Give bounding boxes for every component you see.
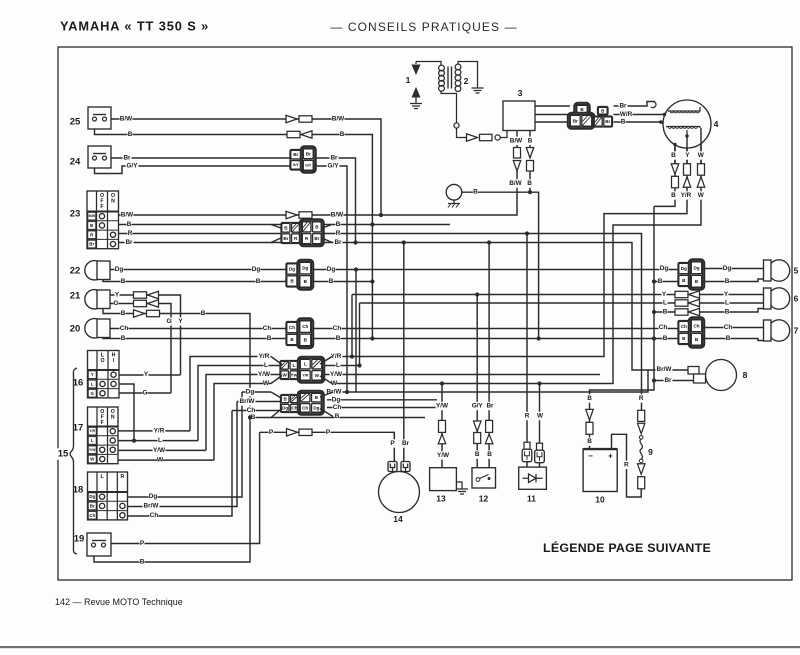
connector B comp3	[526, 148, 534, 172]
svg-text:L: L	[264, 362, 268, 369]
svg-text:13: 13	[436, 494, 446, 504]
svg-text:W: W	[698, 152, 705, 159]
svg-text:B: B	[663, 335, 668, 342]
svg-text:7: 7	[794, 326, 799, 336]
svg-text:L: L	[336, 362, 340, 369]
connector B battery	[586, 409, 594, 434]
svg-text:Dg: Dg	[681, 266, 687, 271]
svg-text:Br/W: Br/W	[144, 503, 160, 510]
wire G/Y drop to comp12	[476, 295, 478, 468]
svg-text:B/W: B/W	[120, 116, 133, 123]
junction L comp16	[132, 439, 136, 443]
svg-text:G/Y: G/Y	[327, 163, 339, 170]
connector block cluster lower	[281, 391, 324, 415]
wire B to magneto	[614, 122, 667, 127]
flasher relay 14	[379, 462, 420, 513]
svg-text:B: B	[121, 335, 126, 342]
wire fan Br23 right	[322, 238, 332, 243]
wire fan W left	[271, 376, 282, 384]
svg-text:Y: Y	[724, 291, 729, 298]
primary lead with connector	[454, 123, 507, 141]
label 11	[527, 494, 536, 504]
svg-text:4: 4	[714, 119, 719, 129]
label B 25b	[340, 130, 345, 138]
wire Br/W row cluster left	[237, 401, 281, 403]
label 2	[464, 76, 469, 86]
label Dg 18	[149, 493, 158, 501]
label B mag2	[671, 191, 676, 199]
rectifier 11	[519, 467, 547, 489]
svg-text:W: W	[537, 413, 544, 420]
wire Y mid to lamp6	[352, 294, 675, 296]
wire fan B23 left	[271, 225, 281, 229]
svg-text:9: 9	[648, 447, 653, 457]
label B battery a	[587, 394, 592, 402]
wire G lamp21	[110, 304, 171, 394]
svg-text:8: 8	[743, 370, 748, 380]
label B/W 23a	[121, 211, 135, 219]
svg-text:Y/R: Y/R	[331, 353, 342, 360]
wire Y/W comp17	[118, 449, 206, 451]
wire Ch row cluster left	[232, 410, 281, 412]
svg-text:Dg: Dg	[327, 266, 336, 273]
wire G comp16	[119, 392, 171, 394]
junction B lamp20 b	[537, 336, 541, 340]
switch 24	[88, 146, 111, 168]
svg-text:20: 20	[70, 324, 81, 335]
connector block Ch/B lamp7	[678, 317, 704, 347]
wire B row25	[95, 129, 373, 339]
wire R row23	[119, 234, 642, 411]
tail light 5	[764, 260, 790, 281]
wire Y/W row	[206, 375, 600, 451]
label Br comp14	[401, 439, 410, 447]
label 1	[406, 75, 411, 85]
label R comp9	[639, 394, 644, 402]
label W mag1	[698, 151, 705, 159]
label B 22b	[256, 277, 261, 285]
label B comp3	[528, 137, 533, 145]
label P 19	[140, 539, 145, 547]
wire P row	[260, 432, 395, 461]
connector block Ch/B row20	[286, 318, 313, 348]
label B/W 25b	[332, 115, 346, 123]
connector pair B/W row25	[286, 115, 312, 122]
svg-text:Y/W: Y/W	[89, 448, 96, 452]
wire B row cluster left	[250, 417, 425, 419]
header CONSEILS PRATIQUES	[330, 20, 517, 34]
svg-text:Y: Y	[144, 371, 149, 378]
svg-text:Y/R: Y/R	[681, 192, 692, 199]
wire fan B right low	[320, 409, 333, 417]
wire B lamp22	[103, 279, 372, 282]
wire Br drop to comp14	[403, 243, 405, 462]
lighting switch 17	[88, 407, 119, 464]
wire CDI out2	[535, 114, 595, 116]
svg-text:10: 10	[595, 495, 605, 505]
svg-text:Br: Br	[125, 239, 133, 246]
svg-text:B/W: B/W	[88, 214, 95, 218]
wire B/W row25	[110, 119, 381, 215]
wire R drop to comp11	[526, 234, 528, 468]
svg-text:B/W: B/W	[121, 212, 134, 219]
label G 16	[143, 389, 148, 397]
wire L row	[198, 366, 358, 441]
wire lamp6 L	[700, 302, 764, 304]
wire W row right	[332, 128, 701, 384]
svg-text:24: 24	[70, 157, 81, 168]
svg-text:P: P	[326, 429, 331, 436]
label B/W 25a	[120, 115, 134, 123]
wire L comp17	[118, 440, 198, 442]
label 16	[72, 377, 85, 389]
svg-text:Dg: Dg	[252, 266, 261, 273]
svg-text:B: B	[256, 278, 261, 285]
svg-text:Br: Br	[89, 242, 94, 247]
label Y lamp6 b	[724, 290, 729, 298]
label Br comp12	[486, 402, 495, 410]
label B lamp6 a	[663, 308, 668, 316]
svg-text:R: R	[624, 461, 629, 468]
magneto 4	[659, 100, 711, 148]
wire Y/R comp17	[118, 430, 190, 432]
svg-text:Dg: Dg	[246, 389, 255, 396]
svg-text:2: 2	[464, 76, 469, 86]
connector W comp11	[535, 443, 545, 463]
svg-text:Dg: Dg	[313, 405, 319, 410]
indicator lamp 20	[85, 319, 110, 338]
connector Br comp12	[485, 420, 493, 443]
label 7	[794, 326, 799, 336]
label 13	[436, 494, 446, 504]
svg-text:Y/W: Y/W	[330, 371, 343, 378]
svg-text:P: P	[390, 440, 395, 447]
label B lamp6 b	[725, 308, 730, 316]
wire CDI out3	[535, 121, 595, 123]
svg-text:F: F	[100, 204, 103, 210]
wire Br row24	[110, 158, 356, 243]
label R battery	[624, 461, 629, 469]
label B 20a	[121, 334, 126, 342]
label Y/W cl-l	[258, 370, 271, 378]
svg-text:N: N	[111, 198, 115, 204]
svg-text:Y/W: Y/W	[153, 447, 166, 454]
connector Y lamp6	[675, 291, 700, 298]
junction W comp11	[537, 381, 541, 385]
wire Y/R row	[190, 357, 271, 431]
junction B lamp6	[652, 310, 656, 314]
svg-text:Br: Br	[90, 503, 95, 508]
svg-text:— CONSEILS PRATIQUES —: — CONSEILS PRATIQUES —	[330, 20, 517, 34]
wire B/W comp3 pin	[516, 131, 518, 149]
svg-text:Br: Br	[306, 151, 311, 156]
wire B comp3 pin	[529, 131, 531, 149]
label Br 24a	[123, 154, 132, 162]
svg-text:B: B	[335, 413, 340, 420]
svg-text:−: −	[588, 451, 593, 460]
svg-text:3: 3	[518, 88, 523, 98]
label L cl-l	[264, 361, 269, 369]
label Br cdi	[619, 102, 628, 110]
svg-text:Dg: Dg	[302, 266, 308, 271]
svg-text:11: 11	[527, 494, 536, 504]
svg-text:Br: Br	[664, 377, 672, 384]
junction B lamp20 c	[652, 336, 656, 340]
svg-text:Ch: Ch	[291, 406, 297, 411]
wire fan B left low	[271, 409, 282, 418]
label Ch 20c	[333, 324, 342, 332]
junction B lamp22 b	[652, 279, 656, 283]
svg-text:B/W: B/W	[510, 137, 523, 144]
junction Br lamp8	[652, 378, 656, 382]
svg-text:B: B	[201, 310, 206, 317]
label B 19	[140, 558, 145, 566]
wire Y/W drop to comp13	[441, 384, 443, 468]
label L lamp6 a	[663, 299, 668, 307]
label W 17	[157, 456, 164, 464]
label R 23b	[336, 229, 341, 237]
svg-text:16: 16	[73, 378, 84, 389]
CDI unit 3	[503, 101, 535, 131]
wire Dg headlight row	[110, 269, 678, 271]
svg-text:B: B	[527, 180, 532, 187]
junction B comp3	[528, 190, 532, 194]
svg-text:Y/W: Y/W	[258, 371, 271, 378]
wire Br/W row right	[333, 370, 648, 392]
svg-text:B: B	[671, 192, 676, 199]
label B cdi	[621, 118, 626, 126]
connector B/W comp3	[513, 148, 521, 172]
junction G/Y Br/W row	[345, 390, 349, 394]
wire Ch row right	[327, 407, 437, 409]
svg-text:Y/W: Y/W	[437, 452, 450, 459]
wire L drop	[359, 303, 361, 366]
svg-text:G: G	[114, 300, 119, 307]
label B 20c	[336, 334, 341, 342]
label 15	[57, 448, 70, 460]
label Ch cl-l	[247, 406, 256, 414]
label W mag2	[698, 191, 705, 199]
label Br/W lamp8	[656, 365, 673, 373]
svg-text:6: 6	[794, 294, 799, 304]
svg-text:LÉGENDE PAGE SUIVANTE: LÉGENDE PAGE SUIVANTE	[543, 540, 711, 555]
wire Y to flasher right	[351, 295, 353, 357]
svg-text:P: P	[140, 540, 145, 547]
label Ch cl-r	[333, 403, 342, 411]
connector B lamp21	[134, 310, 160, 317]
svg-text:Br: Br	[334, 239, 342, 246]
svg-text:G/Y: G/Y	[472, 403, 484, 410]
svg-text:B: B	[671, 152, 676, 159]
wire P comp19	[111, 432, 260, 543]
svg-text:5: 5	[794, 266, 799, 276]
label G/Y comp12	[471, 402, 484, 410]
ignitor unit 13	[430, 468, 468, 494]
wire fan W right	[320, 376, 332, 384]
label L lamp6 b	[725, 299, 730, 307]
svg-text:B: B	[621, 119, 626, 126]
label 10	[595, 495, 605, 505]
label B/W comp3 b	[509, 179, 523, 187]
svg-text:B: B	[90, 223, 93, 228]
label Br 24b	[330, 154, 339, 162]
svg-text:L: L	[725, 300, 729, 307]
svg-text:YAMAHA « TT 350 S »: YAMAHA « TT 350 S »	[60, 19, 209, 34]
label Y/W comp13 a	[436, 402, 449, 410]
connector R comp11	[522, 442, 532, 462]
wire Ch lamp20	[110, 328, 678, 330]
svg-text:21: 21	[70, 291, 81, 302]
label Dg cl-r	[332, 396, 341, 404]
svg-text:Y: Y	[115, 292, 120, 299]
svg-text:Ch: Ch	[333, 404, 342, 411]
label B 25a	[128, 130, 133, 138]
connector G/Y comp12	[473, 421, 481, 444]
svg-text:Ch: Ch	[289, 325, 295, 330]
label 4	[714, 119, 719, 129]
svg-text:L: L	[91, 438, 94, 443]
label Y/R cl-l	[258, 352, 271, 360]
svg-text:23: 23	[70, 209, 81, 220]
svg-text:25: 25	[70, 117, 81, 128]
wire Ch row cluster	[128, 411, 233, 517]
label P rowb	[326, 428, 331, 436]
label B/W 23b	[331, 211, 345, 219]
svg-text:Y: Y	[685, 152, 690, 159]
label Y/W comp13 b	[437, 451, 450, 459]
connector P row	[287, 429, 313, 436]
svg-text:W/R: W/R	[620, 111, 633, 118]
junction Br row23 b	[402, 240, 406, 244]
wire B magneto stub	[674, 145, 676, 164]
label W/R cdi	[620, 110, 633, 118]
frame ground	[446, 184, 462, 207]
svg-text:W: W	[315, 373, 320, 378]
wire fan Y/R left	[271, 357, 282, 365]
label B ground	[473, 188, 478, 196]
junction B lamp20 a	[370, 336, 374, 340]
label B comp3 b	[527, 179, 532, 187]
connector block Dg/B lamp5	[678, 259, 704, 289]
label Y 16	[144, 370, 149, 378]
junction Br row23 a	[353, 240, 357, 244]
svg-text:Br: Br	[330, 155, 338, 162]
svg-text:B/W: B/W	[509, 180, 522, 187]
label B lamp7 a	[663, 334, 668, 342]
svg-text:W: W	[263, 380, 270, 387]
wire B comp4 drop	[654, 145, 675, 207]
svg-text:B: B	[726, 335, 731, 342]
label Dg cl-l	[246, 388, 255, 396]
svg-text:Br: Br	[402, 440, 410, 447]
label 18	[72, 484, 85, 496]
svg-text:R: R	[336, 230, 341, 237]
svg-text:G/Y: G/Y	[293, 163, 300, 167]
wire CDI out1	[535, 105, 570, 107]
label Br lamp8	[664, 376, 673, 384]
svg-text:Br: Br	[293, 152, 298, 157]
head light 6	[764, 288, 790, 309]
label L cl-r	[336, 361, 341, 369]
connector W magneto	[697, 164, 705, 188]
svg-text:Br: Br	[486, 403, 494, 410]
svg-text:B: B	[127, 221, 132, 228]
wire fan Br23 left	[271, 238, 281, 243]
svg-text:Y: Y	[662, 291, 667, 298]
svg-text:L: L	[91, 381, 94, 386]
svg-text:R: R	[639, 395, 644, 402]
label 21	[69, 290, 82, 302]
label 5	[794, 266, 799, 276]
wire Dg row cluster	[128, 392, 243, 497]
wire fan B23 right	[322, 225, 332, 229]
label B 22c	[329, 277, 334, 285]
label 6	[794, 294, 799, 304]
svg-text:G: G	[91, 391, 95, 396]
svg-text:Y/R: Y/R	[154, 427, 165, 434]
label P rowa	[269, 428, 274, 436]
svg-text:R: R	[525, 413, 530, 420]
label B/W comp3	[510, 137, 524, 145]
svg-text:Ch: Ch	[302, 324, 308, 329]
junction Y/W comp13	[440, 381, 444, 385]
wire B row23	[119, 224, 451, 226]
label Y/R mag2	[679, 191, 692, 199]
svg-text:Dg: Dg	[660, 265, 669, 272]
dimmer switch 16	[88, 351, 120, 398]
label 14	[393, 514, 403, 524]
svg-text:Br: Br	[605, 119, 610, 124]
wire W row	[214, 384, 271, 461]
svg-text:W: W	[157, 457, 164, 464]
wire Dg row cluster left	[242, 391, 271, 393]
wire B lamp21	[94, 309, 250, 562]
wire Y magneto	[686, 136, 688, 164]
switch block 23	[87, 191, 119, 249]
connector B magneto	[671, 164, 679, 188]
svg-text:L: L	[663, 300, 667, 307]
connector B lamp6	[675, 308, 700, 315]
junction Dg lamp22	[354, 267, 358, 271]
spark plug 1	[410, 62, 422, 109]
resistor 9	[637, 410, 645, 489]
svg-text:Y/W: Y/W	[436, 403, 449, 410]
svg-text:P: P	[269, 429, 274, 436]
wire lamp7 B	[703, 339, 764, 341]
svg-text:22: 22	[70, 266, 81, 277]
svg-text:Ch: Ch	[263, 325, 272, 332]
svg-text:Ch: Ch	[724, 324, 733, 331]
svg-text:Ch: Ch	[247, 407, 256, 414]
svg-text:L: L	[158, 437, 162, 444]
svg-text:W: W	[331, 380, 338, 387]
label Br/W cl-l	[239, 397, 256, 405]
label R comp11	[525, 412, 530, 420]
svg-text:B: B	[487, 451, 492, 458]
wire W drop to comp11	[539, 384, 541, 468]
svg-text:G: G	[167, 318, 172, 325]
label Br/W 18	[143, 502, 160, 510]
wire L comp16 to comp17	[119, 384, 134, 441]
wire fan BrW right low	[320, 392, 333, 397]
wire Dg drop lamp22 to cluster	[355, 270, 357, 393]
junction L mid	[357, 363, 361, 367]
svg-text:Y/R: Y/R	[259, 353, 270, 360]
wire B lamp5 feed	[654, 281, 678, 283]
battery 10	[583, 449, 617, 491]
label G/Y 24b	[327, 162, 340, 170]
wire Y/R row right	[332, 136, 687, 357]
